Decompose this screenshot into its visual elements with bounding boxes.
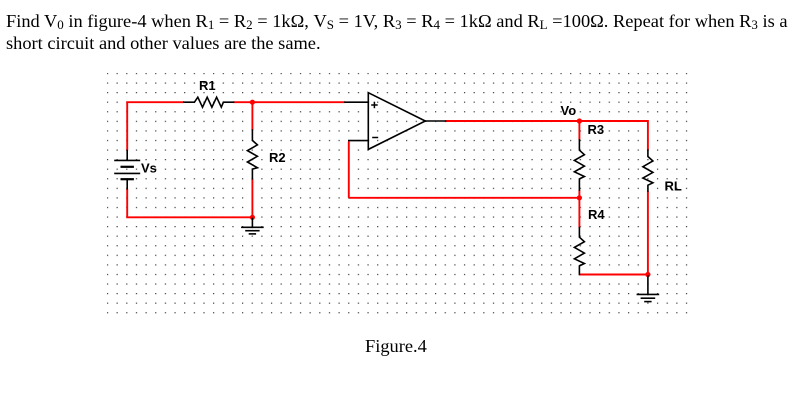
svg-text:Vs: Vs: [141, 161, 157, 176]
svg-text:R3: R3: [588, 122, 605, 137]
svg-text:R1: R1: [199, 78, 216, 93]
svg-text:R4: R4: [588, 207, 605, 222]
svg-text:Vo: Vo: [561, 103, 577, 118]
svg-text:R2: R2: [269, 150, 286, 165]
svg-text:RL: RL: [665, 179, 682, 194]
